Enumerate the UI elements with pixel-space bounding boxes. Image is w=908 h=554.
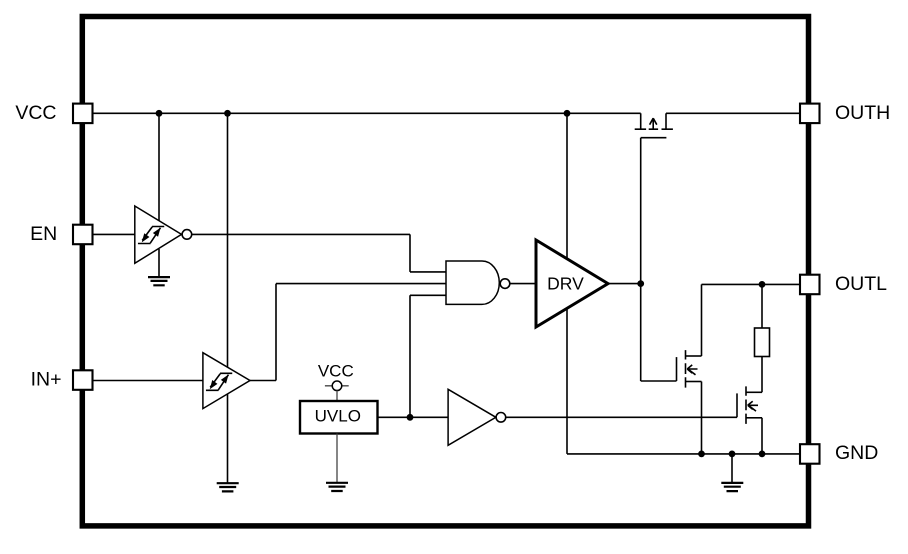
wire VCC rail xyxy=(93,112,641,114)
wire Q2 source down to GND rail xyxy=(701,382,703,454)
svg-text:EN: EN xyxy=(30,223,57,245)
wire GND rail xyxy=(567,453,799,455)
wire OUTL line to pin xyxy=(702,283,800,285)
pin GND xyxy=(800,444,820,464)
node junction dot on VCC rail (IN+ buffer tap) xyxy=(224,110,231,117)
wire IN+ buffer bottom to ground xyxy=(227,394,229,483)
wire UVLO to ground xyxy=(336,434,338,483)
transistor Q2 (mid NMOS) xyxy=(677,350,702,388)
svg-text:DRV: DRV xyxy=(547,274,584,294)
wire GND rail down to ground symbol xyxy=(731,454,733,483)
schmitt buffer U2 (IN+) triangle xyxy=(203,353,250,409)
wire VCC rail down to DRV top xyxy=(566,113,568,258)
ground symbol below U1 xyxy=(148,277,170,285)
hysteresis symbol inside U2 xyxy=(206,373,232,390)
wire VCC rail down to IN+ buffer top xyxy=(227,113,229,367)
ground symbol at output stage xyxy=(721,483,743,491)
NAND gate U4 xyxy=(446,261,499,304)
wire DRV bottom to GND rail xyxy=(566,308,568,454)
svg-text:UVLO: UVLO xyxy=(315,406,361,425)
NAND output bubble xyxy=(500,279,510,289)
svg-text:GND: GND xyxy=(835,442,878,464)
wire NAND output to DRV input xyxy=(510,283,536,285)
wire gate node up to Q1 gate xyxy=(640,138,642,284)
inverter bubble of U6 xyxy=(496,413,506,423)
wire VCC rail down to EN buffer top xyxy=(158,113,160,220)
transistor Q1 (high-side FET) xyxy=(635,113,673,137)
node junction dot UVLO output xyxy=(407,414,414,421)
IC outer boundary box xyxy=(82,17,808,526)
inverter U6 triangle xyxy=(448,389,496,445)
wire EN buffer bottom to ground xyxy=(158,249,160,277)
pin VCC xyxy=(73,104,93,124)
node junction dot on OUTL line (resistor tap) xyxy=(759,281,766,288)
node junction dot GND rail (Q3 source) xyxy=(759,451,766,458)
VCC terminal symbol above UVLO xyxy=(325,385,349,387)
pin OUTH xyxy=(800,104,820,124)
UVLO block U3 xyxy=(300,401,378,434)
wire U2 output to NAND input B xyxy=(250,284,446,381)
wire VCC terminal to UVLO xyxy=(336,391,338,402)
node junction dot DRV output xyxy=(637,280,644,287)
svg-text:VCC: VCC xyxy=(15,102,56,124)
wire UVLO output to inverter xyxy=(378,416,449,418)
transistor Q3 (low NMOS) xyxy=(737,386,762,424)
wire Q2 drain up to OUTL line xyxy=(701,284,703,356)
wire UVLO node up to NAND input C xyxy=(410,295,446,417)
inverter bubble of U1 xyxy=(182,230,192,240)
node junction dot on VCC rail (DRV tap) xyxy=(564,110,571,117)
wire OUTH from Q1 drain to pin xyxy=(666,112,799,114)
wire Q3 source down to GND rail xyxy=(761,418,763,454)
wire EN pin to buffer input xyxy=(93,233,135,235)
node junction dot GND rail (ground tap) xyxy=(729,451,736,458)
node junction dot GND rail (Q2 source) xyxy=(698,451,705,458)
pin IN+ xyxy=(73,370,93,390)
svg-text:OUTH: OUTH xyxy=(835,102,890,124)
wire gate node down to Q2 gate xyxy=(641,284,677,381)
resistor R1 xyxy=(755,328,770,357)
ground symbol below UVLO xyxy=(326,483,348,491)
pin EN xyxy=(73,225,93,245)
wire IN+ pin to buffer input xyxy=(93,380,203,382)
pin OUTL xyxy=(800,275,820,295)
node junction dot on VCC rail (EN buffer tap) xyxy=(156,110,163,117)
hysteresis symbol inside U1 xyxy=(138,227,164,244)
wire DRV output to gate node xyxy=(608,283,641,285)
wire resistor to Q3 drain xyxy=(761,357,763,393)
wire OUTL node down to resistor xyxy=(761,284,763,328)
wire U6 output to Q3 gate xyxy=(506,416,737,418)
svg-text:IN+: IN+ xyxy=(31,369,62,391)
wire U1 output to NAND input A xyxy=(192,234,446,272)
svg-text:VCC: VCC xyxy=(318,361,354,380)
ground symbol below U2 xyxy=(217,483,239,491)
schmitt buffer U1 (EN) triangle xyxy=(135,206,182,263)
driver U5 (DRV) triangle xyxy=(536,240,608,327)
svg-text:OUTL: OUTL xyxy=(835,273,887,295)
